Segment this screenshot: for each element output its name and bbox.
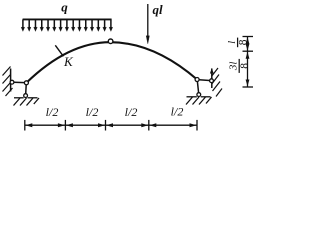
vertical dimension ticks [243,37,254,88]
right ground hinge circle [197,93,201,97]
horizontal dimension line [25,124,197,126]
label l/8 rotated fraction [226,38,249,48]
svg-text:3l: 3l [228,62,240,72]
small arrow mark atop right wall line [210,68,214,74]
dimension arrowheads [25,123,196,127]
left springing hinge circle [24,81,28,85]
right ground hatching [186,97,212,105]
arch left half [26,42,110,83]
right wall pin circle [210,79,214,83]
right wall line [211,69,213,89]
label 3l/8 rotated fraction [228,59,251,73]
left vertical link [25,85,28,94]
crown hinge circle [108,39,113,44]
right wall hatching [212,68,222,97]
distributed load q top bar [23,18,112,20]
svg-text:l: l [226,41,238,44]
left ground hinge circle [24,94,28,98]
svg-text:ql: ql [153,2,164,17]
svg-text:l/2: l/2 [171,104,184,118]
svg-text:q: q [61,0,68,14]
point load ql arrow [146,4,149,44]
arch right half [110,42,197,79]
left wall hatching [3,67,13,97]
svg-text:K: K [63,54,74,69]
distributed load arrows [21,20,113,32]
right springing hinge circle [195,78,199,82]
right vertical link [197,82,198,93]
left ground hatching [14,98,40,106]
dimension ticks [25,120,197,131]
vertical dimension line [247,37,249,88]
vertical dimension arrowheads [246,37,250,86]
svg-text:8: 8 [239,63,251,69]
left horizontal link [14,81,25,83]
left wall pin circle [10,80,14,84]
svg-text:l/2: l/2 [46,105,59,119]
tick mark at K [55,45,63,56]
svg-text:l/2: l/2 [125,105,138,119]
svg-text:8: 8 [237,39,249,45]
right horizontal link [199,79,210,82]
svg-text:l/2: l/2 [86,105,99,119]
left wall line [10,69,12,92]
